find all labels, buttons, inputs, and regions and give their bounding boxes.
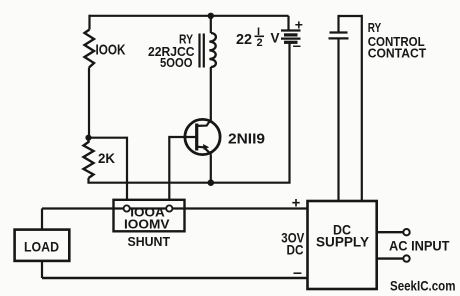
svg-text:2NII9: 2NII9 <box>228 132 265 148</box>
RY control contact top bar <box>339 15 362 17</box>
svg-text:CONTACT: CONTACT <box>368 46 427 60</box>
wire base to shunt right terminal <box>168 136 170 206</box>
resistor 2K <box>84 138 94 178</box>
svg-text:IOOK: IOOK <box>96 42 126 59</box>
wire contact lower lead to DC supply <box>337 38 339 201</box>
wire bottom bus (load to DC supply minus) <box>42 277 308 279</box>
battery plate short thick bottom <box>284 41 298 44</box>
relay coil RY 22RJCC 5000 <box>209 33 215 67</box>
svg-text:IOOMV: IOOMV <box>124 216 170 231</box>
relay core bar 2 <box>203 34 205 68</box>
shunt box <box>114 200 185 232</box>
relay contact plate lower <box>329 37 349 39</box>
svg-text:2K: 2K <box>98 150 115 166</box>
svg-text:SeekIC.com: SeekIC.com <box>390 279 456 294</box>
transistor base bar <box>195 124 198 151</box>
resistor 100K <box>85 30 95 68</box>
wire AC input lower <box>377 257 404 259</box>
wire tap to shunt left terminal <box>89 138 128 206</box>
node junction dot at 100K/2K tap <box>85 135 91 141</box>
AC terminal upper <box>403 229 409 235</box>
svg-text:DC: DC <box>287 243 304 258</box>
wire relay top lead <box>210 16 212 33</box>
battery plate short thick <box>284 33 298 36</box>
battery plate long <box>281 37 301 39</box>
shunt terminal right <box>166 205 172 211</box>
wire contact upper lead <box>337 15 339 33</box>
svg-text:+: + <box>292 195 301 212</box>
wire top bus from 100K to battery <box>90 15 289 17</box>
svg-text:AC INPUT: AC INPUT <box>389 239 450 254</box>
node junction dot at emitter bus <box>208 179 215 186</box>
relay contact plate upper <box>330 31 348 33</box>
svg-text:+: + <box>295 17 303 33</box>
svg-text:RY: RY <box>368 21 382 35</box>
wire load vertical <box>41 209 43 279</box>
relay core bar 1 <box>198 34 200 68</box>
wire emitter bus to battery minus <box>211 42 290 182</box>
transistor emitter stroke <box>197 147 212 155</box>
wire emitter down <box>210 155 212 183</box>
AC terminal lower <box>403 255 409 261</box>
wire left vertical above 100K <box>88 15 90 30</box>
wire base lead <box>169 136 197 138</box>
svg-text:V: V <box>271 31 280 46</box>
wire battery plus lead <box>287 16 289 31</box>
svg-text:22: 22 <box>236 31 252 48</box>
svg-text:2: 2 <box>256 37 262 49</box>
wire 2K bottom to emitter bus <box>89 178 211 183</box>
svg-text:–: – <box>293 38 301 55</box>
svg-text:–: – <box>293 265 302 282</box>
shunt terminal left <box>124 205 130 211</box>
wire left vertical between resistors <box>88 68 90 139</box>
svg-text:LOAD: LOAD <box>24 239 59 254</box>
wire relay to collector <box>210 67 212 121</box>
wire AC input upper <box>377 231 404 233</box>
transistor Q1 2N119 circle <box>185 119 220 154</box>
svg-text:5OOO: 5OOO <box>160 56 193 70</box>
svg-text:SHUNT: SHUNT <box>128 234 171 249</box>
svg-text:SUPPLY: SUPPLY <box>316 235 369 250</box>
transistor collector stroke <box>197 120 211 126</box>
wire right contact branch to DC supply <box>361 15 363 201</box>
transistor emitter arrow (PNP) <box>203 144 209 150</box>
DC supply box <box>308 201 377 289</box>
node junction dot at top bus / relay <box>208 13 214 19</box>
battery B1 plate long top <box>281 29 301 31</box>
load box <box>15 230 70 261</box>
wire main plus bus (load to DC supply) <box>42 207 308 209</box>
